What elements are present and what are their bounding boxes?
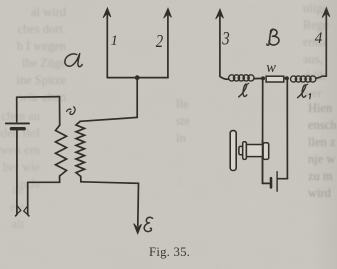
node w-L1 junction	[285, 76, 289, 80]
label E (script)	[144, 217, 152, 231]
label B flourish	[267, 44, 269, 45]
cell short plate	[270, 178, 273, 187]
telephone left flange	[243, 142, 247, 160]
label L (script)	[239, 84, 247, 97]
wire secondary bottom jog	[80, 176, 82, 181]
wire antenna crossbar A	[107, 77, 168, 79]
wire spark gap right lead	[28, 182, 29, 216]
telephone spool body	[246, 145, 263, 157]
caption Fig. 35.	[149, 245, 190, 260]
svg-text:w: w	[266, 60, 276, 76]
wire antenna 3 shaft	[219, 15, 221, 76]
node L-w junction	[261, 76, 265, 80]
label L1 top tick	[305, 84, 307, 86]
coil secondary zigzag	[76, 121, 85, 176]
wire primary coil drop	[59, 97, 61, 126]
svg-text:1: 1	[111, 33, 118, 49]
cell long plate	[276, 172, 278, 192]
label B spine	[269, 30, 273, 45]
arrowhead antenna 1	[103, 8, 111, 18]
wire coil L1 to antenna 4	[316, 76, 326, 78]
coil L loops	[229, 75, 235, 81]
wire redraw over spool	[262, 140, 264, 183]
wire cell left lead	[263, 182, 271, 184]
label B (script)	[269, 29, 279, 45]
wire drop to cell	[286, 78, 288, 178]
wire secondary bottom to earth	[81, 182, 139, 226]
wire battery left lead	[16, 97, 18, 121]
wire antenna 3 to coil L	[220, 76, 229, 79]
label L top tick	[246, 83, 248, 85]
label L1 subscript 1	[309, 94, 310, 99]
faint right column text	[303, 0, 337, 102]
wire antenna 1 shaft	[106, 14, 108, 78]
wire junction drop	[136, 78, 138, 118]
wire cell right lead	[278, 178, 288, 180]
wire antenna 2 shaft	[167, 14, 169, 78]
wire battery bottom lead	[16, 130, 17, 215]
battery long plate	[6, 122, 29, 124]
wire primary bottom	[28, 176, 60, 182]
telephone diaphragm plate	[230, 131, 236, 171]
wire drop to telephone	[262, 78, 264, 183]
telephone right flange	[263, 143, 269, 160]
coil primary zigzag	[56, 125, 67, 176]
resistor w box	[266, 76, 284, 82]
wire antenna 4 shaft	[325, 14, 327, 77]
svg-text:2: 2	[156, 31, 163, 52]
arrowhead antenna 3	[216, 9, 224, 19]
wire to secondary coil top	[80, 117, 137, 121]
arrowhead antenna 4	[322, 8, 330, 18]
arrowhead antenna 2	[164, 8, 172, 18]
label L1 (script)	[298, 85, 306, 98]
node junction A	[135, 75, 140, 80]
arrowhead earth E	[134, 224, 142, 234]
wire w to node 2	[284, 77, 287, 79]
telephone knob	[239, 146, 243, 154]
wire battery top	[17, 96, 60, 99]
coil L1 loops	[291, 76, 297, 82]
label A (script)	[65, 54, 82, 67]
spark gap left electrode	[18, 206, 21, 213]
hand-drawn script labels	[65, 29, 311, 231]
wire coil L to node	[254, 77, 263, 79]
spark gap right electrode	[24, 207, 27, 214]
svg-text:3: 3	[221, 28, 229, 49]
label J (script)	[67, 109, 71, 111]
battery short plate	[11, 127, 24, 130]
faint left column text	[0, 4, 66, 106]
